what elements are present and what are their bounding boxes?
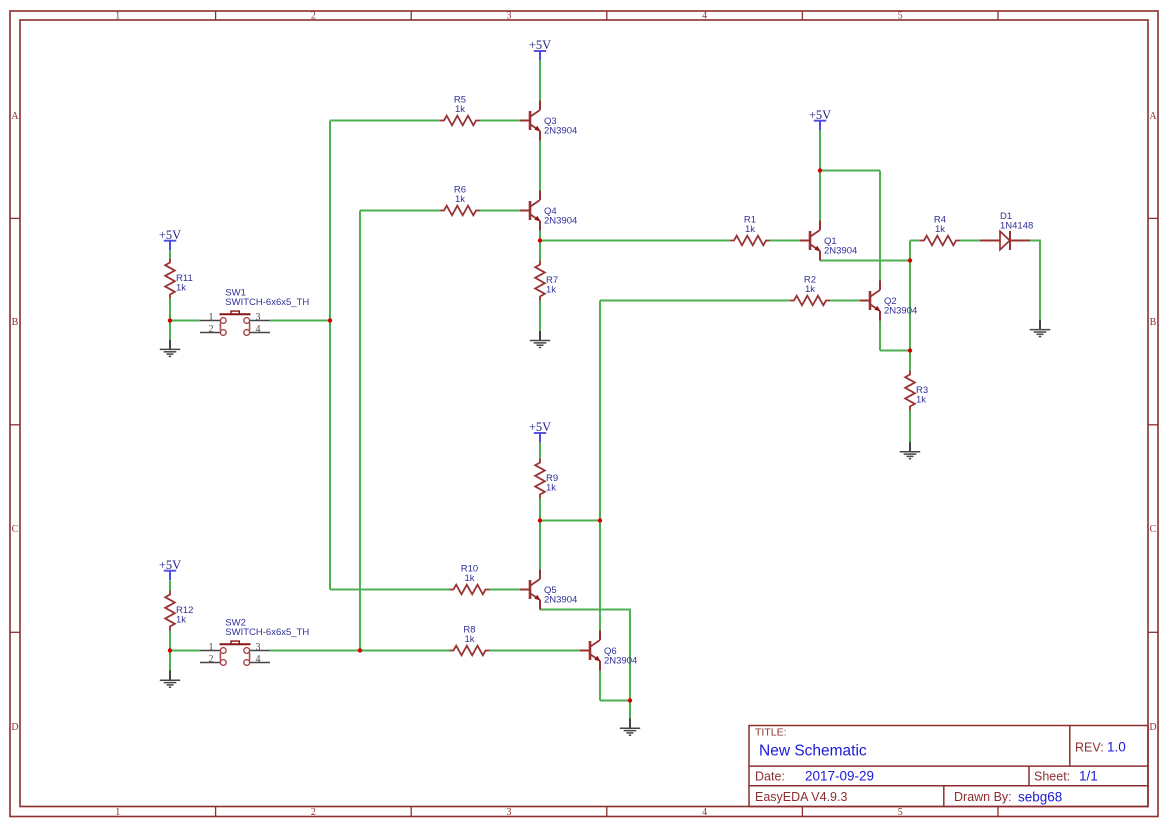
- svg-text:1k: 1k: [745, 224, 755, 235]
- title block REV: [1075, 740, 1126, 755]
- wire Q2 emitter to node: [880, 350, 910, 352]
- svg-text:1: 1: [209, 312, 214, 323]
- wire down to Q2 collector: [879, 171, 881, 281]
- svg-text:EasyEDA V4.9.3: EasyEDA V4.9.3: [755, 790, 847, 804]
- svg-text:4: 4: [702, 10, 707, 21]
- transistor Q1: [800, 221, 857, 261]
- resistor R8: [450, 625, 490, 656]
- transistor Q4: [520, 191, 577, 231]
- svg-text:1k: 1k: [176, 615, 186, 626]
- title block: [749, 726, 1148, 807]
- wire bus1 to R10 left: [330, 589, 450, 591]
- wire SW2 pin3 to R8 left: [270, 650, 450, 652]
- wire +5V node to Q2 branch corner: [820, 170, 880, 172]
- wire R1 to Q1 base: [770, 240, 800, 242]
- title block Date row: [755, 769, 1098, 784]
- wire corner to R2 left: [600, 300, 790, 302]
- switch SW1: [200, 288, 309, 336]
- ground under D1: [1030, 320, 1050, 337]
- svg-text:A: A: [1149, 111, 1157, 122]
- wire Q6 emitter down: [599, 671, 601, 701]
- wire R3 bottom to ground: [909, 411, 911, 443]
- ground under R12: [160, 671, 180, 688]
- svg-text:1k: 1k: [916, 395, 926, 406]
- wire +5V to R12 top: [169, 580, 171, 590]
- svg-text:2N3904: 2N3904: [604, 655, 637, 666]
- svg-text:1k: 1k: [935, 224, 945, 235]
- wire D1 cathode to ground corner: [1030, 241, 1040, 320]
- svg-text:1k: 1k: [546, 483, 556, 494]
- svg-text:SWITCH-6x6x5_TH: SWITCH-6x6x5_TH: [225, 627, 309, 638]
- net +5V (R9): [529, 420, 551, 442]
- svg-text:D: D: [11, 722, 18, 733]
- svg-text:Sheet:: Sheet:: [1034, 770, 1070, 784]
- svg-text:2: 2: [311, 807, 316, 818]
- svg-text:4: 4: [256, 654, 261, 665]
- junction at 540,240.5: [538, 238, 542, 242]
- svg-text:1.0: 1.0: [1107, 740, 1126, 755]
- junction at 170,650.5: [168, 648, 172, 652]
- resistor R9: [535, 459, 558, 499]
- svg-text:3: 3: [507, 807, 512, 818]
- svg-text:Drawn By:: Drawn By:: [954, 790, 1012, 804]
- svg-text:2N3904: 2N3904: [544, 594, 577, 605]
- wire Q6 emitter to node: [600, 700, 630, 702]
- svg-text:2: 2: [209, 324, 214, 335]
- junction at 360,650.5: [358, 648, 362, 652]
- svg-text:2N3904: 2N3904: [544, 125, 577, 136]
- junction at 910,260.5: [908, 258, 912, 262]
- svg-text:REV:: REV:: [1075, 741, 1104, 755]
- wire vertical bus2 SW2 net: [359, 211, 361, 651]
- svg-text:4: 4: [256, 324, 261, 335]
- resistor R3: [905, 371, 928, 411]
- transistor Q5: [520, 570, 577, 610]
- wire SW1 pin3 to bus1: [270, 320, 330, 322]
- svg-text:1k: 1k: [546, 285, 556, 296]
- resistor R4: [920, 215, 960, 246]
- wire R8 to Q6 base: [490, 650, 581, 652]
- svg-text:Date:: Date:: [755, 770, 785, 784]
- junction at 600,520.5: [598, 518, 602, 522]
- svg-text:1k: 1k: [176, 283, 186, 294]
- svg-text:A: A: [11, 111, 19, 122]
- transistor Q3: [520, 101, 577, 141]
- resistor R7: [535, 261, 558, 301]
- wire node to SW2 pin1: [170, 650, 200, 652]
- wire Q1 emitter to node: [820, 260, 910, 262]
- wire +5V to R11 top: [169, 250, 171, 258]
- wire R5 to Q3 base: [480, 120, 520, 122]
- title block bottom row: [755, 790, 1062, 805]
- wire R9 bottom to Q5 collector: [539, 499, 541, 570]
- junction at 330,320.5: [328, 318, 332, 322]
- svg-text:SWITCH-6x6x5_TH: SWITCH-6x6x5_TH: [225, 297, 309, 308]
- wire node Q4e to R1 left: [540, 240, 730, 242]
- wire R10 to Q5 base: [490, 589, 521, 591]
- resistor R11: [165, 259, 193, 299]
- svg-text:B: B: [12, 317, 19, 328]
- title block title value New Schematic: [759, 743, 867, 760]
- svg-text:1: 1: [115, 807, 120, 818]
- wire Q4 emitter to R7 top through node: [539, 231, 541, 261]
- net +5V (top): [529, 38, 551, 60]
- resistor R6: [440, 185, 480, 216]
- junction at 910,350.5: [908, 348, 912, 352]
- svg-text:4: 4: [702, 807, 707, 818]
- junction at 820,170.5: [818, 168, 822, 172]
- svg-text:1k: 1k: [464, 634, 474, 645]
- svg-text:B: B: [1150, 317, 1157, 328]
- wire Q5 emitter to ground node: [540, 610, 630, 701]
- wire Q2 emitter down: [879, 321, 881, 351]
- net +5V (R12): [159, 558, 181, 580]
- ground under Q6: [620, 719, 640, 736]
- svg-text:5: 5: [898, 807, 903, 818]
- wire vertical node to R3 top: [909, 241, 911, 371]
- ground under R11: [160, 340, 180, 357]
- svg-text:2: 2: [311, 10, 316, 21]
- diode D1: [980, 211, 1033, 250]
- svg-text:D: D: [1149, 722, 1156, 733]
- wire R4 to D1 anode: [960, 240, 980, 242]
- net +5V (right): [809, 108, 831, 130]
- wire R12 bottom to ground through node: [169, 631, 171, 671]
- svg-text:5: 5: [898, 10, 903, 21]
- wire +5V rail to Q1 collector: [819, 130, 821, 221]
- transistor Q2: [860, 281, 917, 321]
- wire bus2 corner to R6 left: [360, 210, 440, 212]
- svg-text:3: 3: [256, 312, 261, 323]
- svg-text:sebg68: sebg68: [1018, 790, 1062, 805]
- svg-text:3: 3: [507, 10, 512, 21]
- wire R6 to Q4 base: [480, 210, 520, 212]
- resistor R10: [450, 564, 490, 595]
- svg-text:2N3904: 2N3904: [544, 215, 577, 226]
- wire +5V to R9 top: [539, 442, 541, 458]
- svg-text:1k: 1k: [455, 104, 465, 115]
- svg-text:1k: 1k: [455, 194, 465, 205]
- wire +5V to Q3 collector: [539, 60, 541, 101]
- switch SW2: [200, 618, 309, 666]
- svg-text:1/1: 1/1: [1079, 769, 1098, 784]
- junction at 540,520.5: [538, 518, 542, 522]
- junction at 630,700.5: [628, 698, 632, 702]
- wire vertical bus1 SW1 net: [329, 121, 331, 590]
- wire bus1 corner to R5 left: [330, 120, 440, 122]
- wire node to R4 left: [910, 240, 920, 242]
- svg-text:1N4148: 1N4148: [1000, 221, 1033, 232]
- svg-text:C: C: [1150, 524, 1157, 535]
- resistor R5: [440, 95, 480, 126]
- wire node to SW1 pin1: [170, 320, 200, 322]
- resistor R12: [165, 591, 193, 631]
- switch SW2 pin numbers: [209, 642, 261, 665]
- wire node to node R9 bottom: [540, 520, 600, 522]
- svg-text:1: 1: [115, 10, 120, 21]
- svg-text:2: 2: [209, 654, 214, 665]
- svg-text:1: 1: [209, 642, 214, 653]
- svg-text:TITLE:: TITLE:: [755, 727, 787, 739]
- wire R2 to Q2 base: [830, 300, 860, 302]
- wire R7 bottom to ground: [539, 301, 541, 331]
- ground under R3: [900, 442, 920, 459]
- transistor Q6: [580, 631, 637, 671]
- svg-text:New Schematic: New Schematic: [759, 743, 867, 760]
- wire vertical bus to Q6 collector: [599, 301, 601, 631]
- resistor R2: [790, 275, 830, 306]
- resistor R1: [730, 215, 770, 246]
- svg-text:2017-09-29: 2017-09-29: [805, 769, 874, 784]
- wire R11 bottom to ground through node: [169, 299, 171, 340]
- svg-text:1k: 1k: [805, 284, 815, 295]
- ground under R7: [530, 331, 550, 348]
- svg-text:2N3904: 2N3904: [884, 305, 917, 316]
- junction at 170,320.5: [168, 318, 172, 322]
- switch SW1 pin numbers: [209, 312, 261, 335]
- net +5V (R11): [159, 228, 181, 250]
- svg-text:C: C: [12, 524, 19, 535]
- title block TITLE label: [755, 727, 787, 739]
- svg-text:2N3904: 2N3904: [824, 245, 857, 256]
- svg-text:3: 3: [256, 642, 261, 653]
- wire Q3 emitter to Q4 collector: [539, 141, 541, 191]
- wire node to ground under Q6: [629, 701, 631, 719]
- svg-text:1k: 1k: [464, 573, 474, 584]
